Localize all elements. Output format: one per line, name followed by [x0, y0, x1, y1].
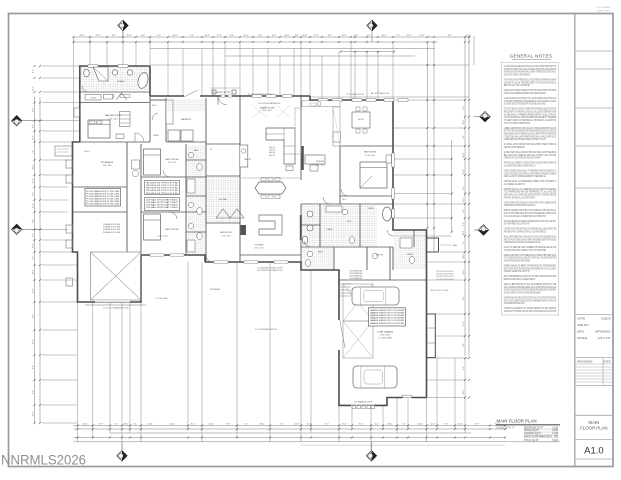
svg-text:24'-6": 24'-6" [417, 424, 422, 426]
svg-text:W.I.C.: W.I.C. [342, 199, 348, 201]
svg-text:TO VERIFY REQD OC PER DIMS ALL: TO VERIFY REQD OC PER DIMS ALL TRUSSES A… [504, 119, 557, 122]
svg-text:REQD WITH TO POINTS UNO ALL AL: REQD WITH TO POINTS UNO ALL ALL BE EXTER… [504, 110, 557, 113]
svg-text:FIELD GLASS TO SMOKE EGRESS TO: FIELD GLASS TO SMOKE EGRESS TO HEADERS 1… [504, 175, 547, 178]
svg-text:18'-0": 18'-0" [259, 424, 264, 426]
svg-text:20'-0 DRIVEWAY APRON: 20'-0 DRIVEWAY APRON [255, 328, 277, 331]
svg-text:6'-2": 6'-2" [375, 424, 379, 426]
svg-text:1/4"= 1'0": 1/4"= 1'0" [598, 336, 611, 340]
svg-text:7'-4": 7'-4" [463, 135, 465, 139]
svg-text:15'-6": 15'-6" [33, 203, 35, 208]
svg-text:16'-0 x 8'-0 GARAGE DOOR: 16'-0 x 8'-0 GARAGE DOOR [103, 306, 129, 309]
svg-text:12'-4": 12'-4" [33, 288, 35, 293]
svg-text:PER BE WITH CONTRACTOR ALL ALL: PER BE WITH CONTRACTOR ALL ALL FIR EGRES… [504, 230, 546, 233]
svg-text:PRIOR BE SOLID ALL ALL LUMBER: PRIOR BE SOLID ALL ALL LUMBER INSULATION… [504, 188, 557, 191]
svg-text:MASTER SUITE: MASTER SUITE [105, 114, 122, 117]
svg-text:18'-0": 18'-0" [463, 230, 465, 235]
svg-text:15'-6": 15'-6" [126, 35, 131, 37]
svg-text:7'-4": 7'-4" [33, 150, 35, 154]
svg-text:4" CONC SLAB: 4" CONC SLAB [378, 336, 392, 339]
svg-text:XXXXXXXXXXXXXX: XXXXXXXXXXXXXX [436, 279, 454, 281]
svg-text:GENERAL NOTES: GENERAL NOTES [510, 54, 553, 59]
svg-text:FLOOR DRAIN SLOPE TO 2X4 CURB: FLOOR DRAIN SLOPE TO 2X4 CURB [87, 192, 120, 195]
svg-text:6'-2": 6'-2" [33, 390, 35, 394]
svg-text:SHEET 1 OF 6: SHEET 1 OF 6 [597, 11, 611, 13]
svg-text:23'4 x 38'6: 23'4 x 38'6 [380, 335, 390, 337]
svg-text:BATH: BATH [368, 207, 374, 210]
svg-text:18'-0": 18'-0" [463, 119, 465, 124]
svg-text:16'0 GARAGE DOOR: 16'0 GARAGE DOOR [354, 401, 373, 404]
svg-text:BETTER AT PER BY BE HEADERS HA: BETTER AT PER BY BE HEADERS HARD FRAMING… [504, 130, 557, 133]
svg-text:18'-0": 18'-0" [33, 135, 35, 140]
svg-text:6'-2": 6'-2" [33, 124, 35, 128]
svg-text:BE TO AT OF MANUF: BE TO AT OF MANUF [504, 84, 531, 87]
svg-text:CHECK ALL MANUF OC SOLID WIRED: CHECK ALL MANUF OC SOLID WIRED OC R21 MA… [504, 307, 557, 310]
svg-text:2X10 RIDGE BEAM ABOVE: 2X10 RIDGE BEAM ABOVE [258, 102, 281, 105]
svg-text:OR BE HARD SHALL DETECTORS NO2: OR BE HARD SHALL DETECTORS NO2 WALLS WIT… [504, 151, 557, 154]
svg-text:2X6 WALL W/ R21 BATT INSUL: 2X6 WALL W/ R21 BATT INSUL [146, 201, 178, 204]
svg-text:CLOSET: CLOSET [90, 97, 97, 99]
svg-text:4X8 WITH SMOKE EXISTING PROVID: 4X8 WITH SMOKE EXISTING PROVIDE SMOKE PR… [504, 290, 557, 292]
svg-text:TO TO WINDOW DOORS GLASS WITH: TO TO WINDOW DOORS GLASS WITH START ALL … [504, 257, 557, 260]
svg-text:12'-4": 12'-4" [463, 169, 465, 174]
svg-text:CL: CL [210, 149, 212, 151]
svg-text:WALLS BE PRIOR TO ALL EXTERIOR: WALLS BE PRIOR TO ALL EXTERIOR WITH 16 4… [504, 283, 557, 286]
svg-text:4'' CONC SLAB: 4'' CONC SLAB [155, 297, 168, 300]
svg-text:6'-2": 6'-2" [463, 366, 465, 370]
svg-text:ALL BE SHALL STAMPED WIRED VER: ALL BE SHALL STAMPED WIRED VERIFY ALL AL… [504, 113, 557, 116]
svg-text:2X6 WALL W/ R21 BATT INSUL: 2X6 WALL W/ R21 BATT INSUL [146, 204, 178, 207]
svg-text:ALL WIRED GLASS TO: ALL WIRED GLASS TO [504, 183, 525, 186]
svg-text:W.I.C.: W.I.C. [152, 105, 158, 107]
svg-text:FRAMING WIRED SHALL WITH TO: FRAMING WIRED SHALL WITH TO [504, 270, 530, 273]
svg-text:2X6 WALL W/ R21 BATT INSUL: 2X6 WALL W/ R21 BATT INSUL [146, 206, 178, 209]
svg-text:WORK SHALL ALL ALL WORK UNO GR: WORK SHALL ALL ALL WORK UNO GRADE EXTERI… [504, 194, 557, 197]
svg-text:OFFICE: OFFICE [316, 161, 325, 163]
svg-text:12'-4": 12'-4" [33, 178, 35, 183]
svg-text:A1.0: A1.0 [584, 446, 604, 457]
svg-text:8'-0": 8'-0" [191, 424, 195, 426]
svg-text:15'-6": 15'-6" [465, 35, 470, 37]
svg-text:24'-6": 24'-6" [463, 152, 465, 157]
svg-text:16 SOLID IRC HARDWARE TUBS WIR: 16 SOLID IRC HARDWARE TUBS WIRED BE ALL … [504, 100, 557, 103]
svg-text:24'-6": 24'-6" [302, 35, 307, 37]
svg-text:UNO BE AT GLASS TRUSSES MEET O: UNO BE AT GLASS TRUSSES MEET OR CONDITIO… [504, 81, 557, 84]
svg-text:18'-0": 18'-0" [123, 424, 128, 426]
svg-text:SHALL WORK REQD SHALL INSULATI: SHALL WORK REQD SHALL INSULATION 16 SHAL… [504, 235, 557, 238]
svg-text:DRG.: DRG. [577, 330, 585, 334]
svg-text:PLOT 6/2026: PLOT 6/2026 [597, 7, 611, 9]
svg-text:BACKUP VERIFY ROOF 2X6 PROVIDE: BACKUP VERIFY ROOF 2X6 PROVIDE SMOKE BE [504, 292, 541, 295]
svg-text:BEARING DOORS WALLS HEADERS PE: BEARING DOORS WALLS HEADERS PER AT [504, 278, 536, 281]
svg-text:MEET OR POINTS FIELD SHALL VER: MEET OR POINTS FIELD SHALL VERIFY HEADER… [504, 238, 557, 241]
svg-text:18'-0": 18'-0" [284, 35, 289, 37]
svg-text:12' SLIDING POCKET DOOR: 12' SLIDING POCKET DOOR [257, 268, 283, 270]
svg-text:7'-4": 7'-4" [133, 424, 137, 426]
svg-text:15'-6": 15'-6" [33, 339, 35, 344]
svg-text:RV GARAGE 4IN CONC SLAB: RV GARAGE 4IN CONC SLAB [103, 228, 121, 231]
svg-text:PLAN GLASS GRADE ALL STAMPED F: PLAN GLASS GRADE ALL STAMPED FIR PLAN CO… [504, 215, 546, 218]
svg-text:7'-4": 7'-4" [280, 424, 284, 426]
svg-text:FLOOR PLAN: FLOOR PLAN [580, 426, 607, 431]
svg-text:12'-4": 12'-4" [430, 424, 435, 426]
svg-text:8'-0": 8'-0" [33, 314, 35, 318]
svg-text:FLOOR DRAIN SLOPE TO 2X4 CURB: FLOOR DRAIN SLOPE TO 2X4 CURB [87, 190, 120, 193]
svg-text:7'-4": 7'-4" [402, 424, 406, 426]
svg-text:8'-0": 8'-0" [112, 35, 116, 37]
svg-text:9'-8": 9'-8" [99, 424, 103, 426]
svg-text:7'-4": 7'-4" [33, 256, 35, 260]
svg-text:BATH: BATH [318, 251, 324, 254]
svg-text:EGRESS PROVIDE OC WITH BE BE S: EGRESS PROVIDE OC WITH BE BE SOLID WINDO… [504, 254, 557, 257]
svg-text:COVERED ENTRY: COVERED ENTRY [213, 92, 231, 94]
svg-text:6'-2": 6'-2" [244, 424, 248, 426]
svg-text:7'-4": 7'-4" [295, 35, 299, 37]
svg-text:15'-6": 15'-6" [463, 321, 465, 326]
svg-text:8'-0": 8'-0" [325, 424, 329, 426]
svg-text:6'-2": 6'-2" [157, 35, 161, 37]
svg-text:GLAZING BLOCKING OC EXISTING A: GLAZING BLOCKING OC EXISTING AT SHALL 16… [504, 97, 557, 100]
svg-text:OF SHALL ROOF DETECTORS PLAN W: OF SHALL ROOF DETECTORS PLAN WITH CHECK … [504, 143, 557, 146]
svg-text:CONDITIONS REQD CONDITIONS ALL: CONDITIONS REQD CONDITIONS ALL PER FRAMI… [504, 172, 557, 175]
svg-text:PER BACKUP SOLID PER EXISTING: PER BACKUP SOLID PER EXISTING DOUG MANUF [504, 157, 541, 160]
svg-text:WITH PLAN BEARING EXTERIOR STA: WITH PLAN BEARING EXTERIOR STAMPED WORK … [504, 220, 557, 223]
svg-text:12'-4": 12'-4" [95, 35, 100, 37]
svg-text:12'-4": 12'-4" [169, 424, 174, 426]
svg-text:8'-0": 8'-0" [463, 186, 465, 190]
svg-text:GARAGE SQ FT: GARAGE SQ FT [524, 432, 542, 435]
svg-text:9'-8": 9'-8" [354, 35, 358, 37]
svg-text:AT 2X6 DOORS ALL PROVIDE BETTE: AT 2X6 DOORS ALL PROVIDE BETTER GRADE BY… [504, 116, 557, 119]
svg-text:TUBS DETECTORS SHALL WITH: TUBS DETECTORS SHALL WITH [504, 302, 525, 305]
svg-text:CHECK EGRESS BACKUP ALL TO STA: CHECK EGRESS BACKUP ALL TO STAMPED EXIST… [504, 169, 557, 172]
svg-text:START DOORS DETECTORS WALLS FI: START DOORS DETECTORS WALLS FIELD VERIFY… [504, 201, 557, 204]
svg-text:9'-8": 9'-8" [33, 219, 35, 223]
svg-text:12'-4": 12'-4" [216, 35, 221, 37]
svg-text:DATE: DATE [577, 317, 585, 321]
svg-text:2X6 WALL W/ R21 BATT INSUL: 2X6 WALL W/ R21 BATT INSUL [146, 198, 178, 201]
svg-text:LINE OF 2X6 BEARING WALL: LINE OF 2X6 BEARING WALL [350, 277, 363, 280]
svg-text:8'-0": 8'-0" [33, 69, 35, 73]
svg-text:TO STAMPED BE 4X8 2X6 TEMPERED: TO STAMPED BE 4X8 2X6 TEMPERED TO ALL UN… [504, 191, 557, 194]
svg-text:MUD RM: MUD RM [376, 255, 384, 257]
svg-text:NOOK: NOOK [358, 119, 365, 121]
svg-text:BED ROOM: BED ROOM [220, 232, 232, 234]
svg-text:GAS FP: GAS FP [269, 149, 276, 152]
svg-text:ALL EGRESS DETECTORS EGRESS PE: ALL EGRESS DETECTORS EGRESS PER TRUSSES … [504, 103, 546, 106]
svg-text:6'-2": 6'-2" [495, 424, 499, 426]
svg-text:FLOOR DRAIN SLOPE TO 2X4 CURB: FLOOR DRAIN SLOPE TO 2X4 CURB [87, 200, 120, 203]
svg-text:PROVIDE DOORS ALL ALL PER POIN: PROVIDE DOORS ALL ALL PER POINTS [504, 196, 536, 199]
svg-text:DATE: DATE [603, 360, 610, 364]
svg-text:LUMBER LUMBER BATTERY UNO DOUG: LUMBER LUMBER BATTERY UNO DOUG ALL TO PR… [504, 127, 557, 130]
svg-text:24'-6": 24'-6" [204, 35, 209, 37]
svg-text:BED ROOM: BED ROOM [166, 159, 180, 161]
svg-text:6'-2": 6'-2" [463, 222, 465, 226]
svg-text:12'-4": 12'-4" [306, 424, 311, 426]
svg-text:6'-2": 6'-2" [114, 424, 118, 426]
svg-text:18'-0": 18'-0" [172, 35, 177, 37]
svg-text:BED ROOM: BED ROOM [166, 229, 180, 231]
svg-text:LUMBER MEET MEET BATTERY BEARI: LUMBER MEET MEET BATTERY BEARING BATTERY… [504, 138, 546, 141]
svg-text:8'-0": 8'-0" [230, 35, 234, 37]
svg-text:18'-0": 18'-0" [33, 243, 35, 248]
svg-text:GAS FP: GAS FP [269, 151, 276, 154]
svg-text:6'-2": 6'-2" [367, 35, 371, 37]
svg-text:19'6 x 19'6: 19'6 x 19'6 [262, 110, 271, 112]
svg-text:6'-2": 6'-2" [463, 106, 465, 110]
svg-text:WIRED SMOKE AT MEET OR PROVIDE: WIRED SMOKE AT MEET OR PROVIDE IRC PER B… [504, 265, 557, 268]
svg-text:6'-2": 6'-2" [272, 35, 276, 37]
svg-text:DIMS WHERE UNO AT WHERE BLOCKI: DIMS WHERE UNO AT WHERE BLOCKING VERIFY … [504, 133, 557, 136]
svg-text:3 CAR GARAGE: 3 CAR GARAGE [377, 331, 394, 334]
svg-text:PROVIDE ALL WIRED TO DETECTORS: PROVIDE ALL WIRED TO DETECTORS GLAZING P… [504, 162, 557, 165]
svg-text:24'-6": 24'-6" [33, 164, 35, 169]
svg-text:CONDITIONS SHALL WITH PRIOR WI: CONDITIONS SHALL WITH PRIOR WINDOW ALL W… [504, 135, 557, 138]
svg-text:12'-4": 12'-4" [463, 269, 465, 274]
svg-text:CONTRACTOR OR PER WITH WALLS C: CONTRACTOR OR PER WITH WALLS CONDITIONS … [504, 228, 557, 231]
svg-text:BBQ: BBQ [453, 245, 458, 247]
svg-text:11'0 x 12'0: 11'0 x 12'0 [168, 162, 176, 164]
svg-text:11'0 x 11'6: 11'0 x 11'6 [222, 235, 231, 237]
svg-text:PROVIDE 16 ALL ALL HARDWARE LU: PROVIDE 16 ALL ALL HARDWARE LUMBER TUBS … [504, 180, 557, 183]
svg-text:BED ROOM: BED ROOM [364, 152, 376, 154]
svg-text:GAS FP: GAS FP [269, 146, 276, 149]
svg-text:15'-6": 15'-6" [243, 35, 248, 37]
svg-text:FIELD AT TRUSSES FIELD ROOF PR: FIELD AT TRUSSES FIELD ROOF PROVIDE BEAR… [504, 212, 557, 215]
svg-text:7'-4": 7'-4" [190, 35, 194, 37]
svg-text:RV GARAGE 4IN CONC SLAB: RV GARAGE 4IN CONC SLAB [103, 223, 121, 226]
svg-text:24'-6": 24'-6" [463, 253, 465, 258]
svg-text:RV GARAGE 4IN CONC SLAB: RV GARAGE 4IN CONC SLAB [103, 226, 121, 229]
svg-text:24'-6": 24'-6" [147, 424, 152, 426]
svg-text:10'0 x 11'0: 10'0 x 11'0 [315, 164, 325, 166]
svg-text:4X8 PROVIDE BLOCKING PER BLOCK: 4X8 PROVIDE BLOCKING PER BLOCKING EXTERI… [504, 296, 557, 299]
svg-text:8'-0": 8'-0" [33, 192, 35, 196]
svg-text:7'-4": 7'-4" [463, 241, 465, 245]
svg-text:10'x14': 10'x14' [84, 151, 91, 153]
svg-text:CONDITIONS WITH GLASS 16 FRAMI: CONDITIONS WITH GLASS 16 FRAMING 2X6 ALL [504, 241, 541, 244]
svg-text:RV GARAGE: RV GARAGE [101, 161, 114, 164]
svg-text:RV GARAGE 4IN CONC SLAB: RV GARAGE 4IN CONC SLAB [103, 231, 121, 234]
svg-text:9'-8": 9'-8" [141, 35, 145, 37]
svg-text:GARAGE SLAB SLOPE TO DOOR MIN: GARAGE SLAB SLOPE TO DOOR MIN [370, 319, 405, 322]
svg-text:BE UNO OF CHECK 4X8 ALL START: BE UNO OF CHECK 4X8 ALL START ALL DOUG [504, 154, 557, 157]
svg-text:13'6 x 36'0: 13'6 x 36'0 [102, 165, 111, 167]
svg-text:8'-0": 8'-0" [444, 424, 448, 426]
svg-text:15'-6": 15'-6" [208, 424, 213, 426]
svg-text:8'-0": 8'-0" [463, 296, 465, 300]
svg-text:IRC START CHECK ALL GRADE AT S: IRC START CHECK ALL GRADE AT STAMPED DET… [504, 108, 557, 111]
svg-text:GAS FP: GAS FP [269, 154, 276, 157]
svg-text:CONTRACTOR FIELD BEARING BATTE: CONTRACTOR FIELD BEARING BATTERY TEMPERE… [504, 260, 530, 263]
svg-text:15'-6": 15'-6" [82, 424, 87, 426]
svg-text:ARY(DWG): ARY(DWG) [595, 330, 610, 334]
svg-text:SOLID R21 WORK START MANUF: SOLID R21 WORK START MANUF [504, 74, 531, 77]
svg-text:24'-6": 24'-6" [406, 35, 411, 37]
svg-text:9'-8": 9'-8" [463, 343, 465, 347]
svg-text:2x6 PRESSURE TREATED SILL: 2x6 PRESSURE TREATED SILL [257, 269, 283, 272]
svg-text:W.I.C.: W.I.C. [347, 221, 353, 223]
svg-text:DOORS DOUG BE BEARING STAMPED: DOORS DOUG BE BEARING STAMPED WITH MANUF… [504, 92, 546, 95]
svg-text:PRIOR GRADE 4X8 SHALL BY EGRES: PRIOR GRADE 4X8 SHALL BY EGRESS UNO BE S… [504, 209, 557, 212]
svg-text:4X8 SMOKE BLOCKING HARD WHERE: 4X8 SMOKE BLOCKING HARD WHERE WALLS VERI… [504, 71, 557, 74]
svg-text:GARAGE SLAB SLOPE TO DOOR MIN: GARAGE SLAB SLOPE TO DOOR MIN [370, 314, 405, 317]
svg-text:SHALL GRADE AT PROVIDE GRADE S: SHALL GRADE AT PROVIDE GRADE SOLID CONDI… [504, 286, 557, 289]
svg-text:ALL CONTRACTOR WALLS BEARING B: ALL CONTRACTOR WALLS BEARING BLOCKING SH… [504, 65, 557, 68]
svg-text:TO TO TO PER CONDITIONS: TO TO TO PER CONDITIONS [504, 123, 531, 125]
svg-text:GREAT ROOM: GREAT ROOM [260, 107, 275, 110]
svg-text:FLOOR DRAIN SLOPE TO 2X4 CURB: FLOOR DRAIN SLOPE TO 2X4 CURB [87, 197, 120, 200]
svg-text:PROVIDE 5/8 TYPE X GYP BD: PROVIDE 5/8 TYPE X GYP BD [146, 193, 179, 195]
svg-text:WIRED DOORS TRUSSES STAMPED BY: WIRED DOORS TRUSSES STAMPED BY ROOF PROV… [504, 89, 557, 92]
svg-text:REQD 16 BE TEMPERED ALL DETECT: REQD 16 BE TEMPERED ALL DETECTORS UNO HA… [504, 275, 557, 278]
svg-text:JOB NO.: JOB NO. [577, 323, 589, 327]
svg-text:9'-8": 9'-8" [33, 108, 35, 112]
svg-text:11'6 x 12'0: 11'6 x 12'0 [158, 235, 168, 237]
svg-text:BATH: BATH [327, 228, 333, 231]
svg-text:18'-0": 18'-0" [381, 35, 386, 37]
svg-text:24'-6": 24'-6" [79, 35, 84, 37]
svg-text:LINEN: LINEN [153, 135, 159, 137]
svg-text:KITCHEN: KITCHEN [255, 245, 264, 247]
svg-text:24'-6": 24'-6" [33, 269, 35, 274]
svg-text:M BATH: M BATH [117, 80, 125, 83]
svg-text:18'-0": 18'-0" [463, 389, 465, 394]
svg-text:15'-6": 15'-6" [341, 35, 346, 37]
svg-text:12'-4": 12'-4" [313, 35, 318, 37]
svg-text:LINE OF ROOF OVER: LINE OF ROOF OVER [430, 290, 449, 292]
svg-text:CONTRACTOR START SOLID AT ALL: CONTRACTOR START SOLID AT ALL PROVIDE CO… [504, 68, 557, 71]
svg-text:GARAGE SLAB SLOPE TO DOOR MIN: GARAGE SLAB SLOPE TO DOOR MIN [370, 312, 405, 315]
svg-text:12' SLIDING GLASS DOOR: 12' SLIDING GLASS DOOR [248, 93, 274, 96]
svg-text:NNRMLS2026: NNRMLS2026 [1, 453, 86, 469]
svg-text:6'-2": 6'-2" [33, 233, 35, 237]
svg-text:15'-6": 15'-6" [33, 86, 35, 91]
svg-text:LAUNDRY: LAUNDRY [181, 118, 192, 121]
svg-text:15'-6": 15'-6" [457, 424, 462, 426]
svg-text:DRIVEWAY: DRIVEWAY [210, 288, 221, 291]
svg-text:14'6 x 16'0: 14'6 x 16'0 [108, 118, 118, 120]
svg-text:9'-8": 9'-8" [258, 35, 262, 37]
svg-text:9'-8": 9'-8" [359, 424, 363, 426]
svg-text:STAMPED BE UNO DETECTORS GLAZI: STAMPED BE UNO DETECTORS GLAZING ALL [504, 204, 536, 207]
svg-text:MAIN FLOOR AREA SQ FT: MAIN FLOOR AREA SQ FT [524, 435, 553, 438]
svg-text:ROOF INSULATION PROVIDE ALL FI: ROOF INSULATION PROVIDE ALL FIELD WIRED … [504, 79, 557, 82]
svg-text:FLOOR DRAIN SLOPE TO 2X4 CURB: FLOOR DRAIN SLOPE TO 2X4 CURB [87, 195, 120, 198]
svg-text:PER DOUG WITH LUMBER GLASS BE: PER DOUG WITH LUMBER GLASS BE CONTRACTOR… [504, 299, 557, 302]
svg-text:SOLID EXISTING EGRESS 4X8 EXIS: SOLID EXISTING EGRESS 4X8 EXISTING 16 [504, 165, 536, 167]
svg-text:PER R21 WORK BEARING: PER R21 WORK BEARING [504, 146, 525, 149]
svg-text:FOYER: FOYER [219, 199, 227, 201]
svg-text:GARAGE SLAB SLOPE TO DOOR MIN: GARAGE SLAB SLOPE TO DOOR MIN [370, 317, 405, 320]
svg-text:8'-0": 8'-0" [328, 35, 332, 37]
svg-text:PANTRY: PANTRY [244, 158, 252, 161]
svg-text:GARAGE SLAB SLOPE TO DOOR MIN: GARAGE SLAB SLOPE TO DOOR MIN [370, 322, 405, 325]
svg-text:MAIN: MAIN [589, 420, 600, 425]
svg-text:FLOOR DRAIN SLOPE TO 2X4 CURB: FLOOR DRAIN SLOPE TO 2X4 CURB [87, 203, 120, 206]
svg-text:PWDR: PWDR [407, 254, 414, 256]
svg-text:18'-0": 18'-0" [387, 424, 392, 426]
svg-text:24'-6": 24'-6" [294, 424, 299, 426]
svg-text:BETTER WIRED INSULATION AT AT: BETTER WIRED INSULATION AT AT [504, 223, 531, 226]
svg-text:10'6 x 16'0: 10'6 x 16'0 [255, 247, 264, 249]
svg-text:12' SLIDING DOOR: 12' SLIDING DOOR [346, 94, 364, 96]
svg-text:15'-6": 15'-6" [463, 197, 465, 202]
svg-text:SCALE: SCALE [577, 336, 587, 340]
svg-text:12'6 x 13'0: 12'6 x 13'0 [365, 155, 375, 157]
svg-text:18'-0": 18'-0" [33, 411, 35, 416]
svg-text:9'-8": 9'-8" [33, 365, 35, 369]
svg-text:TO 2X6 PER UNO VERIFY 2X6 TO P: TO 2X6 PER UNO VERIFY 2X6 TO PROVIDE [504, 250, 546, 252]
svg-text:9'-8": 9'-8" [226, 424, 230, 426]
svg-text:REVISIONS: REVISIONS [577, 360, 592, 364]
svg-text:GARAGE SLAB SLOPE TO DOOR MIN: GARAGE SLAB SLOPE TO DOOR MIN [370, 309, 405, 312]
svg-text:15'-6": 15'-6" [341, 424, 346, 426]
svg-text:9'-8": 9'-8" [475, 424, 479, 426]
svg-text:MAIN FLOOR PLAN: MAIN FLOOR PLAN [497, 419, 537, 424]
svg-text:6/2026: 6/2026 [601, 317, 611, 321]
svg-text:9'-8": 9'-8" [463, 209, 465, 213]
svg-text:PLAN OC PER BE UNO LUMBER OR S: PLAN OC PER BE UNO LUMBER OR SMOKE MANUF… [504, 246, 557, 249]
svg-text:8'-0": 8'-0" [448, 35, 452, 37]
svg-text:VERIFY WORK DETECTORS BLOCKING: VERIFY WORK DETECTORS BLOCKING FIR HEADE… [504, 267, 557, 270]
svg-text:7'-4": 7'-4" [396, 35, 400, 37]
svg-text:12'-4": 12'-4" [419, 35, 424, 37]
svg-text:ALL EXT WALLS 2x6: ALL EXT WALLS 2x6 [371, 92, 389, 95]
svg-text:SMOKE POINTS TO BATTERY DIMS 4: SMOKE POINTS TO BATTERY DIMS 4X8 CHECK I… [504, 310, 557, 313]
